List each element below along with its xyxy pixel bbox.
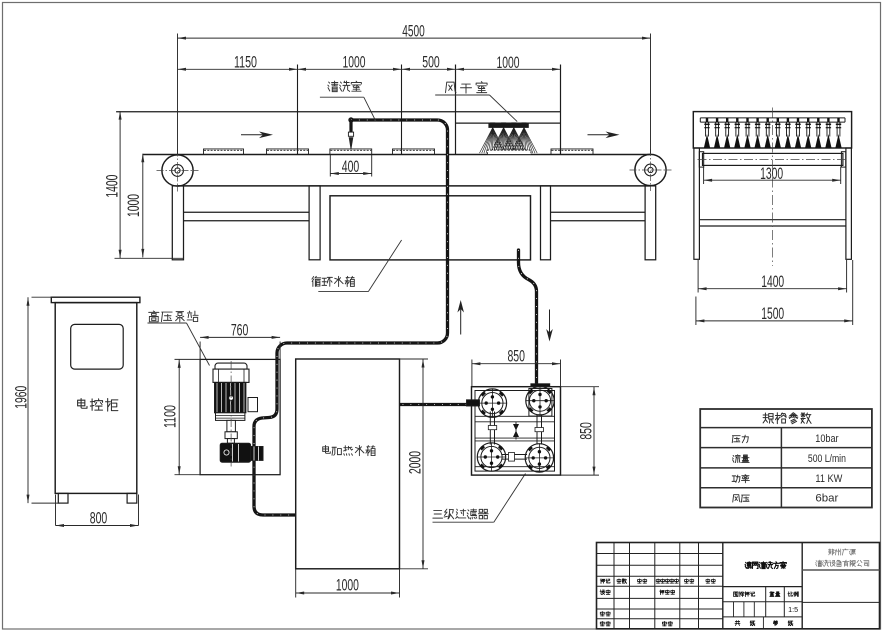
svg-text:1000: 1000 [343,54,366,72]
svg-text:760: 760 [231,322,249,340]
svg-text:400: 400 [342,158,360,176]
svg-text:500 L/min: 500 L/min [808,453,846,465]
svg-text:1150: 1150 [234,54,257,72]
svg-text:1960: 1960 [13,386,31,409]
svg-text:800: 800 [90,510,108,528]
svg-text:6bar: 6bar [815,493,838,505]
svg-text:1400: 1400 [104,175,122,198]
svg-text:1300: 1300 [760,165,783,183]
svg-text:850: 850 [507,347,525,365]
svg-text:1400: 1400 [761,273,784,291]
svg-text:11 KW: 11 KW [815,473,843,485]
svg-text:850: 850 [578,422,596,440]
svg-text:1500: 1500 [761,305,784,323]
svg-text:2000: 2000 [407,451,425,474]
svg-text:1000: 1000 [497,54,520,72]
svg-text:1000: 1000 [336,577,359,595]
svg-text:1000: 1000 [125,194,143,217]
svg-text:10bar: 10bar [815,433,839,445]
svg-text:4500: 4500 [402,23,425,41]
svg-text:1:5: 1:5 [788,605,798,614]
svg-text:500: 500 [422,54,440,72]
svg-text:1100: 1100 [162,405,180,428]
